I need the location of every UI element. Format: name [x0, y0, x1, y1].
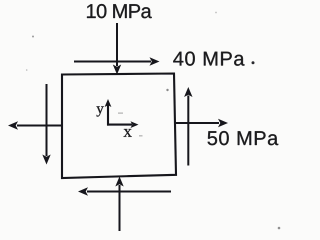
axis label x	[124, 129, 132, 137]
noise speck bottom-right corner	[278, 227, 281, 230]
sigma-x arrow right (pointing right, 50 MPa)	[175, 119, 229, 127]
coordinate axes: y-axis (up)	[105, 99, 112, 126]
noise speck top-left	[32, 36, 34, 38]
shear arrow bottom face (pointing left)	[78, 187, 171, 195]
coordinate axes: x-axis (right)	[107, 121, 139, 128]
stress element box	[62, 74, 176, 179]
noise speck upper-right area	[215, 12, 217, 14]
noise dash right of y label	[118, 113, 123, 114]
period speck after 40 MPa	[252, 61, 255, 64]
noise speck left-mid area	[26, 69, 28, 71]
label 40 MPa	[173, 52, 244, 66]
shear arrow right face (pointing up)	[184, 87, 192, 166]
noise speck right of x label	[139, 135, 143, 136]
sigma-y arrow bottom (up onto bottom face)	[115, 177, 123, 232]
noise speck inside box near top-right	[166, 89, 168, 91]
sigma-x arrow left (pointing left out of left face)	[8, 121, 62, 129]
shear arrow left face (pointing down)	[42, 84, 50, 165]
shear arrow top face (pointing right)	[74, 57, 160, 65]
sigma-y arrow top (down onto top face)	[113, 23, 121, 75]
axis label y	[96, 106, 103, 116]
label 50 MPa	[208, 131, 279, 145]
label 10 MPa	[87, 4, 152, 18]
